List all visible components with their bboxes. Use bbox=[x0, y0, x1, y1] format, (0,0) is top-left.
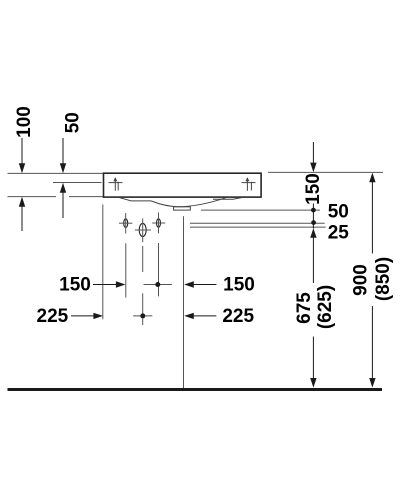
dimension 50: upper arrow down to line A at x=63 bbox=[62, 138, 64, 164]
wire: right extension line y=209.6 bbox=[201, 209, 320, 211]
svg-text:150: 150 bbox=[59, 275, 91, 296]
wire: extension of middle hole centre x=142.7 (dashed) bbox=[142, 246, 144, 272]
svg-text:150: 150 bbox=[303, 173, 324, 205]
svg-text:225: 225 bbox=[37, 306, 69, 327]
dimension 25: lower arrow up to y=227.1 bbox=[310, 228, 316, 238]
tap hole symbol right bbox=[242, 178, 256, 191]
dimension 150 right: arrow to centre line and label bbox=[184, 281, 194, 287]
dimension chain line with dots x=313.4 bbox=[312, 204, 314, 229]
node: fixing hole right (oval with crosshair) bbox=[157, 219, 161, 227]
floor line bbox=[8, 388, 383, 391]
svg-text:150: 150 bbox=[223, 275, 255, 296]
dimension 225 right: arrow to centre line and label bbox=[184, 313, 194, 319]
node: dot at y=209.6 bbox=[311, 208, 316, 213]
wire: extension of right hole centre x=158.5 bbox=[158, 243, 160, 296]
dimension 100: lower arrow up to line C at x=22 bbox=[21, 206, 23, 232]
drain / waste box bbox=[174, 207, 191, 210]
dimension 150 (vertical chain): top arrow bbox=[312, 142, 314, 164]
svg-text:25: 25 bbox=[328, 223, 350, 244]
dimension 225 left: line and arrow to x=102.8 bbox=[71, 315, 95, 317]
dimension 100: upper arrow down to line A at x=22 bbox=[21, 138, 23, 164]
tap hole symbol left bbox=[109, 178, 123, 191]
wire: extension of left hole centre x=125.8 bbox=[125, 243, 127, 297]
dimension 675(625): lower shaft and floor arrow bbox=[312, 337, 314, 380]
basin bowl front contour (main arc) bbox=[151, 198, 226, 207]
svg-text:225: 225 bbox=[222, 306, 254, 327]
dimension 100: label (rotated) bbox=[14, 106, 35, 138]
svg-text:(625): (625) bbox=[315, 285, 336, 329]
dimension 150 left: line and arrow to x=125.8 bbox=[93, 284, 117, 286]
wire: left extension line B (tap deck level) y=182.5 bbox=[53, 182, 102, 184]
dimension 225: shared dot on middle hole line bbox=[133, 315, 152, 317]
wire: right extension of rim top y=172.4 bbox=[268, 171, 383, 173]
svg-text:50: 50 bbox=[63, 112, 84, 133]
dimension 50: label (rotated) bbox=[63, 112, 84, 133]
svg-text:675: 675 bbox=[294, 292, 315, 324]
dimension 50: lower arrow up to line B at x=63 bbox=[62, 193, 64, 219]
washbasin body (front view rectangle) bbox=[104, 173, 262, 197]
wire: right double line lower y=227.1 bbox=[190, 226, 326, 228]
node: fixing hole left (oval with crosshair) bbox=[124, 219, 128, 228]
dimension 900(850): labels (rotated) bbox=[351, 264, 372, 296]
dimension 150 (vertical chain): label (rotated) bbox=[303, 173, 324, 205]
svg-text:50: 50 bbox=[328, 202, 349, 223]
dimension 150: shared dot on right hole line bbox=[144, 284, 172, 286]
svg-text:100: 100 bbox=[14, 106, 35, 138]
node: middle hole (larger oval with crosshair) bbox=[139, 223, 146, 236]
node: dot at y=222.6 bbox=[311, 220, 316, 225]
wire: left extension line A (rim top level) y=173.4 bbox=[8, 172, 104, 174]
dimension 675(625): labels (rotated) bbox=[294, 292, 315, 324]
svg-text:(850): (850) bbox=[373, 257, 394, 301]
basin bowl front contour (left lip) bbox=[120, 198, 152, 201]
wire: extension line from basin left edge down x=102.8 bbox=[102, 205, 104, 320]
dimension 900(850): top arrow up to y=172.4 bbox=[369, 173, 375, 183]
wire: centre line of drain down to floor x=183.5 bbox=[183, 216, 185, 388]
dimension 900(850): lower shaft and floor arrow bbox=[371, 306, 373, 379]
wire: left extension line C (rim bottom level) y=196.6, gap around x=56-69 bbox=[8, 196, 57, 198]
wire: right double line upper y=223.2 bbox=[190, 222, 325, 224]
basin bowl front contour (right lip) bbox=[213, 198, 242, 200]
svg-text:900: 900 bbox=[351, 264, 372, 296]
